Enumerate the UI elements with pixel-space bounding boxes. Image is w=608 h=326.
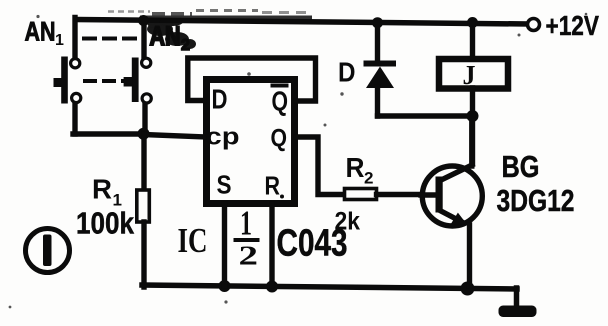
scan noise specks [36, 15, 39, 18]
wire diode bottom [375, 87, 380, 116]
svg-text:2k: 2k [335, 208, 361, 236]
svg-text:R: R [346, 152, 365, 183]
scan noise streaks above rail [108, 10, 150, 13]
resistor R2 body [345, 189, 377, 200]
wire R1 bottom [141, 222, 146, 287]
wire collector up [469, 116, 474, 166]
svg-text:R: R [265, 171, 281, 201]
switch AN1 contact top [71, 59, 80, 68]
wire button loop left vertical lower [72, 102, 77, 134]
switch AN1 actuator nub [54, 78, 63, 87]
switch AN2 contact top [142, 58, 151, 67]
terminal +12V [528, 19, 540, 31]
IC flip-flop box U1 [207, 80, 295, 204]
switch AN2 actuator bar [132, 58, 139, 103]
transistor BG base bar [436, 177, 443, 213]
svg-text:100k: 100k [76, 206, 135, 241]
transistor BG base lead inside [421, 192, 436, 197]
svg-text:2: 2 [364, 169, 373, 188]
transistor BG collector diagonal [439, 165, 472, 181]
figure number circle 1 [26, 229, 70, 273]
switch AN2 actuator nub [124, 77, 133, 87]
svg-text:3DG12: 3DG12 [497, 183, 575, 218]
wire smudge over rail [142, 16, 310, 20]
svg-text:IC: IC [178, 221, 208, 260]
wire R pin [269, 204, 274, 286]
wire R2 to base [377, 192, 438, 197]
wire button loop bottom [73, 131, 144, 136]
wire relay top [470, 23, 475, 58]
wire bottom ground rail [142, 285, 517, 289]
wire top supply rail [77, 20, 527, 25]
svg-text:AN: AN [25, 17, 56, 47]
svg-text:1: 1 [55, 32, 64, 49]
transistor BG emitter diagonal [439, 210, 461, 222]
junction diode / collector [467, 110, 479, 122]
svg-text:1: 1 [240, 204, 252, 243]
wire Q output [296, 137, 345, 195]
wire button loop left vertical upper [72, 18, 77, 60]
svg-text:2: 2 [239, 241, 259, 271]
svg-text:D: D [338, 57, 356, 88]
figure number digit 1 [43, 235, 52, 267]
diode D cathode bar [364, 61, 397, 67]
switch AN2 contact bottom [142, 94, 151, 103]
junction rail / relay [467, 17, 478, 28]
junction S pin / rail [219, 280, 231, 292]
junction top rail / AN2 [138, 15, 149, 26]
wire CP input [143, 135, 205, 138]
transistor BG Q1 circle [422, 166, 482, 226]
wire button loop right vertical lower [142, 103, 147, 135]
svg-text:D: D [212, 84, 228, 115]
mechanical link dashed middle [85, 79, 126, 83]
wire diode branch from rail [375, 23, 380, 61]
svg-text:BG: BG [502, 149, 540, 184]
svg-text:+12V: +12V [546, 10, 600, 41]
junction rail / diode [372, 17, 383, 28]
junction emitter / rail [461, 282, 475, 296]
wire feedback loop D to Qbar [188, 58, 316, 101]
svg-text:Q: Q [272, 86, 289, 117]
svg-text:Q: Q [271, 125, 288, 153]
transistor BG emitter arrow [451, 213, 467, 225]
wire S pin [222, 204, 227, 286]
junction R pin / rail [266, 281, 278, 293]
ground bar [499, 306, 537, 318]
svg-text:J: J [463, 60, 476, 90]
wire button loop right vertical upper [141, 22, 146, 59]
wire emitter down [467, 225, 472, 286]
wire R1 top [141, 134, 146, 190]
switch AN1 contact bottom [72, 93, 81, 102]
switch AN1 actuator bar [61, 57, 68, 104]
junction buttons bottom / R1 [138, 128, 150, 140]
wire ground drop [514, 288, 520, 307]
resistor R1 body [137, 190, 150, 222]
svg-text:S: S [217, 170, 232, 200]
wire diode to relay bottom [378, 113, 473, 118]
diode D anode triangle [366, 67, 394, 89]
wire relay bottom [470, 88, 475, 163]
relay J coil box [439, 59, 508, 89]
svg-text:cp: cp [206, 124, 240, 151]
mechanical link dashed upper [84, 37, 138, 41]
svg-text:R: R [92, 174, 112, 205]
